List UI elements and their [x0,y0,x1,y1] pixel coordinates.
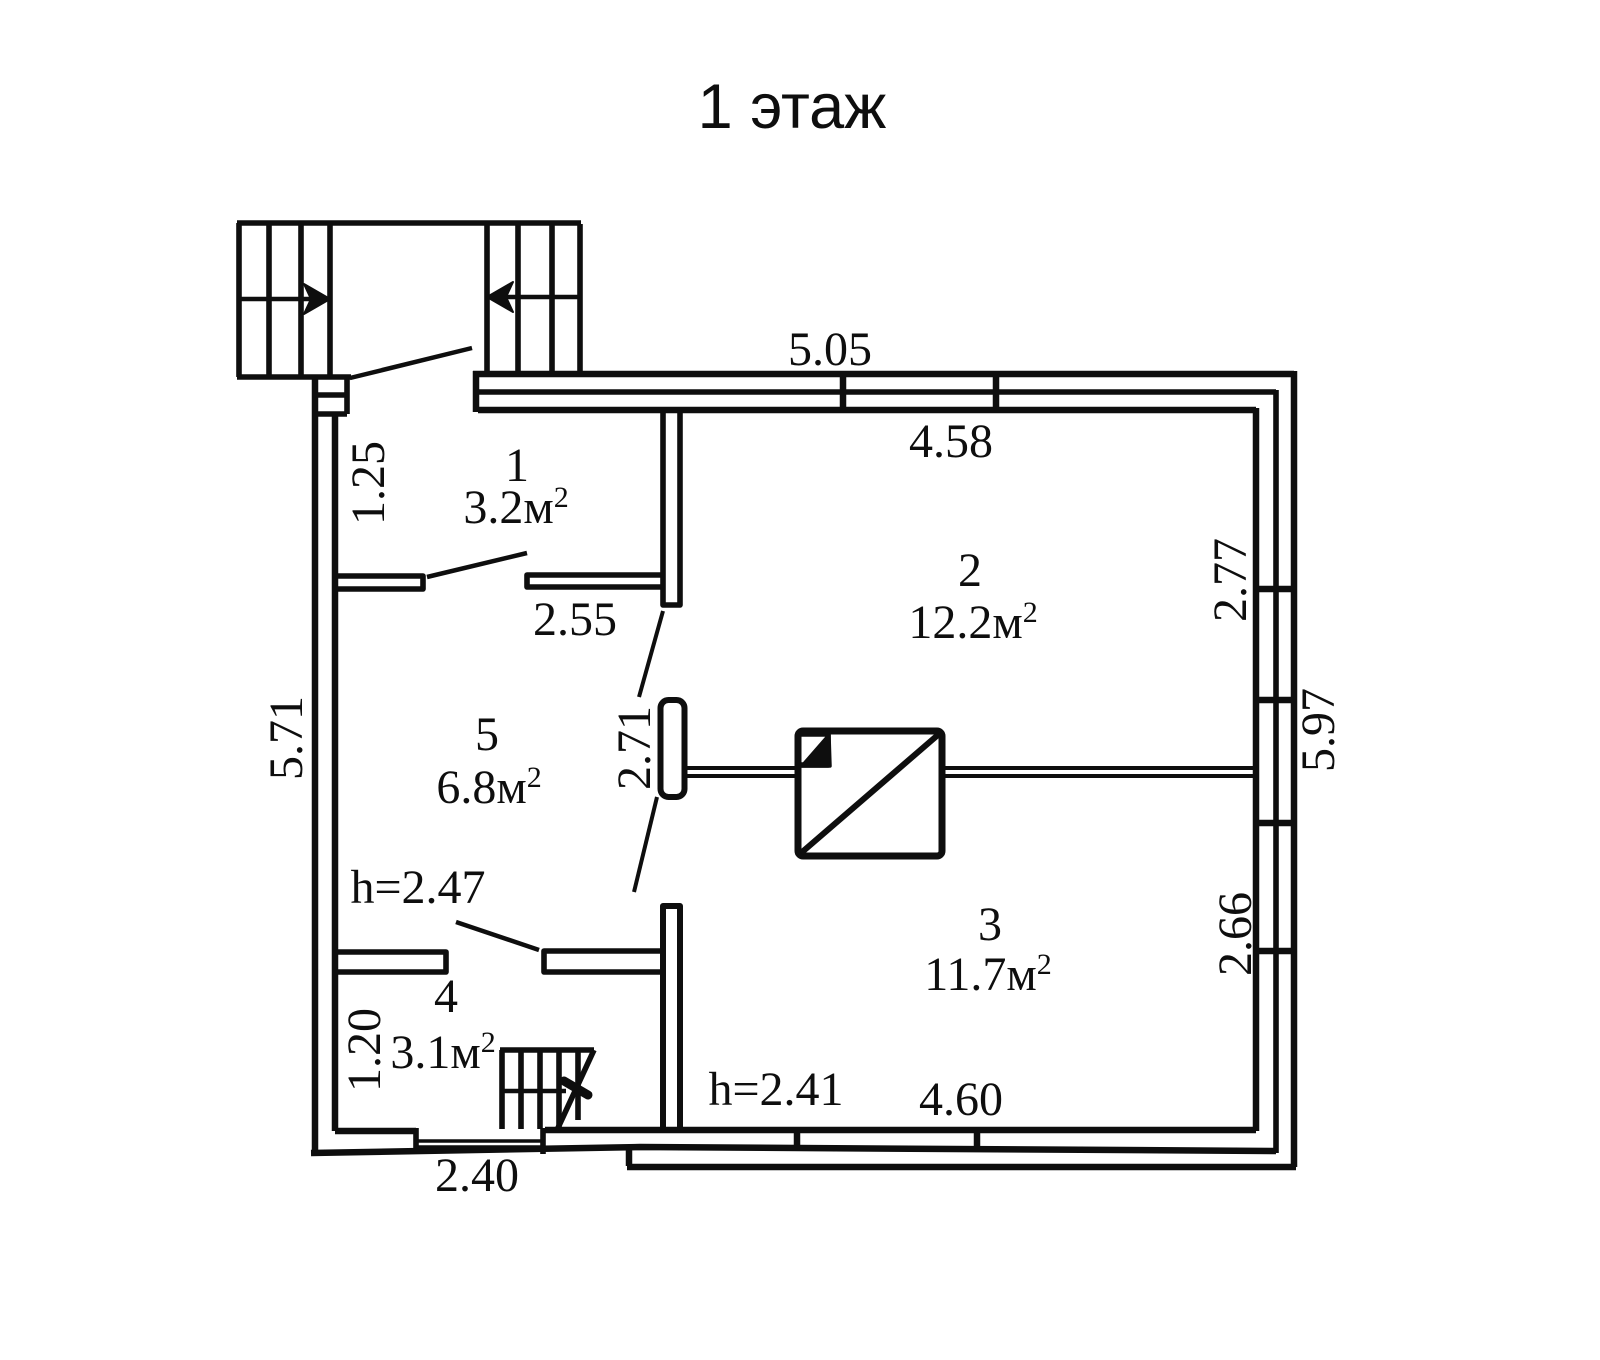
wall: top exterior middle line [478,389,1276,395]
door leaf room3 entry [634,797,657,892]
stairs bottom: arrow head [564,1081,588,1095]
window 2.40: right jamb [540,1128,546,1154]
svg-text:11.7м2: 11.7м2 [924,948,1052,1001]
stairs top-left: left flight tread 1 [266,223,272,377]
stairs bottom: mid line [500,1089,566,1094]
wall: left exterior inner line [332,414,339,1131]
door swing room5/room4 [456,922,539,950]
stairs bottom: left edge [499,1050,505,1129]
window tick right wall y951 [1253,948,1296,955]
window divider tick bottom wall x977 [974,1129,981,1151]
stairs bottom: tread 4 [575,1050,581,1120]
window tick right wall y700 [1253,697,1296,704]
window divider tick bottom wall x797 [794,1129,801,1151]
window 2.40: glazing line 2 [416,1145,543,1149]
svg-text:4.58: 4.58 [909,415,993,468]
svg-text:h=2.47: h=2.47 [350,861,485,914]
stairs top-left: arrow head pointing right [304,284,330,314]
window under stairs: box [316,378,347,414]
svg-text:2.55: 2.55 [533,593,617,646]
svg-text:12.2м2: 12.2м2 [908,596,1037,649]
svg-text:2: 2 [958,544,982,597]
wall: right exterior outer line [1291,371,1298,1167]
svg-text:2.40: 2.40 [435,1149,519,1202]
svg-text:3.1м2: 3.1м2 [390,1026,495,1079]
svg-text:h=2.41: h=2.41 [708,1063,843,1116]
heater flue wall left lower line [684,774,797,778]
heater: small square [801,734,828,765]
window divider tick W1 right on top wall [993,372,1000,410]
stairs top-left: left flight mid line with arrow shaft [239,297,325,302]
wall: partition room5/room4 left segment [335,952,446,972]
wall: bottom long middle line (left outer / right middle) [311,1147,1276,1153]
entrance door leaf diagonal [350,348,472,378]
wall: right exterior middle line [1273,390,1279,1153]
svg-text:3.2м2: 3.2м2 [463,481,568,534]
stairs top-left: left flight bottom edge [237,374,351,380]
wall: left exterior outer line [312,377,319,1154]
svg-text:1 этаж: 1 этаж [698,72,887,142]
stairs top-left: left flight tread 2 [298,223,304,377]
window tick right wall y823 [1253,820,1296,827]
door swing room 1 [427,553,527,577]
svg-text:4.60: 4.60 [919,1073,1003,1126]
svg-text:1.20: 1.20 [338,1008,391,1092]
svg-text:6.8м2: 6.8м2 [436,761,541,814]
heater: small square filled triangle [802,735,830,766]
stairs top-left: top edge [237,220,581,226]
svg-text:2.71: 2.71 [608,706,661,790]
stairs top-left: right flight right edge [577,224,583,374]
wall: bottom inner line left (room 4) [335,1128,416,1135]
pillar between doors [661,700,685,797]
wall: top exterior left end cap [473,371,480,412]
heater: main diagonal [801,734,939,853]
stairs top-left: right flight tread 2 [549,225,555,374]
heater flue wall left upper line [684,766,797,770]
wall: top exterior outer line [473,371,1294,378]
stairs top-left: right flight tread 1 [515,225,521,374]
wall: bottom right outer line [627,1164,1296,1171]
wall: bottom step cap [626,1148,633,1166]
svg-text:4: 4 [434,970,458,1023]
wall: partition room1/room5 right segment [527,575,663,587]
svg-text:1.25: 1.25 [342,441,395,525]
wall: bottom inner line (room 3 and stair hall) [545,1127,1256,1134]
svg-text:2.66: 2.66 [1209,892,1262,976]
window 2.40: left jamb [413,1128,419,1152]
door leaf room2 entry [639,611,663,697]
stairs bottom: descent diagonal [557,1050,594,1130]
wall: right exterior inner line [1253,408,1260,1131]
window tick right wall y589 [1253,586,1296,593]
window 2.40: glazing line 1 [416,1139,543,1143]
heater flue wall right upper line [943,766,1256,770]
svg-text:5.05: 5.05 [788,323,872,376]
window divider tick W1 left on top wall [840,372,847,410]
stairs top-left: right flight left edge [484,225,490,374]
stairs bottom: top edge [500,1047,594,1053]
svg-text:3: 3 [978,898,1002,951]
wall: partition room1/room5 left segment [335,576,423,589]
svg-text:5.97: 5.97 [1292,688,1345,772]
stairs bottom: tread 2 [537,1050,543,1129]
svg-text:5: 5 [475,708,499,761]
svg-text:5.71: 5.71 [260,696,313,780]
stairs top-left: left flight left edge [236,223,242,377]
heater flue wall right lower line [943,774,1256,778]
stairs top-left: right flight mid line [489,295,580,300]
wall: partition room1/room2 vertical [663,411,680,605]
wall: partition room5/room4 right segment [544,951,663,972]
heater: main box [798,731,942,856]
stairs bottom: tread 3 [556,1050,562,1129]
stairs top-left: left flight right edge [327,223,333,377]
wall: partition stair-hall/room3 vertical [663,906,680,1130]
svg-text:2.77: 2.77 [1204,538,1257,622]
wall: top exterior inner line [478,407,1256,414]
stairs bottom: tread 1 [518,1050,524,1129]
stairs top-left: arrow head pointing left [487,282,513,312]
